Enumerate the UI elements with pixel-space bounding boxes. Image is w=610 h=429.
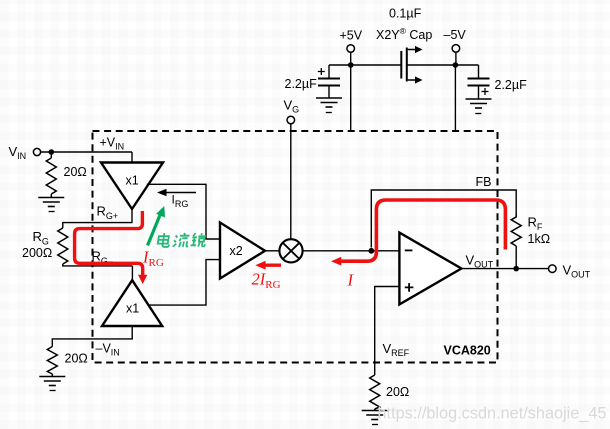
buffer U2 x1 bottom	[102, 280, 162, 326]
wire VG down to multiplier	[290, 124, 292, 239]
wire -5V down to box	[454, 65, 456, 131]
svg-text:x1: x1	[126, 174, 139, 188]
label current mirror (Chinese)	[157, 233, 207, 247]
svg-text:I: I	[347, 271, 355, 290]
svg-text:+5V: +5V	[340, 29, 363, 43]
wire FB top	[371, 190, 516, 248]
multiplier U4	[279, 239, 302, 262]
resistor R2 20ohm bottom left	[47, 347, 57, 377]
svg-text:0.1µF: 0.1µF	[389, 7, 422, 21]
annotation green current mirror arrow	[148, 206, 166, 246]
wire RG+ jog	[63, 223, 133, 228]
annotation red current path I along FB	[341, 200, 506, 261]
svg-text:VIN: VIN	[9, 144, 27, 161]
svg-text:x2: x2	[230, 244, 243, 258]
wire to buffer A2 apex	[131, 266, 133, 280]
wire +5V down to box	[350, 65, 352, 131]
wire buffer A2 output to x2 lower input	[149, 260, 220, 306]
node +5V rail junction	[348, 62, 354, 68]
svg-text:VG: VG	[284, 98, 300, 115]
annotation red current path through RG	[75, 211, 143, 276]
annotation arrow IRG black	[157, 189, 196, 197]
node I junction	[368, 248, 374, 254]
wire -5V to rail	[455, 52, 457, 65]
resistor R3 20ohm VREF	[370, 375, 380, 409]
ground input	[38, 198, 64, 212]
svg-text:–VIN: –VIN	[96, 342, 120, 358]
wire opamp output	[461, 268, 548, 270]
svg-text:2.2µF: 2.2µF	[495, 78, 528, 92]
svg-text:2.2µF: 2.2µF	[285, 77, 318, 91]
annotation arrow 2IRG red	[265, 264, 282, 267]
terminal VOUT	[549, 263, 591, 280]
svg-text:FB: FB	[476, 175, 492, 189]
wire +5V to rail	[350, 52, 352, 65]
svg-text:20Ω: 20Ω	[64, 165, 87, 179]
resistor RG 200ohm	[58, 228, 68, 264]
svg-text:2IRG: 2IRG	[252, 270, 281, 292]
svg-text:https://blog.csdn.net/shaojie_: https://blog.csdn.net/shaojie_45	[378, 405, 607, 423]
wire top rail right	[407, 64, 479, 66]
wire top rail left	[329, 64, 401, 66]
svg-text:20Ω: 20Ω	[386, 385, 409, 399]
ground VREF	[362, 409, 388, 425]
wire x2 to multiplier	[265, 250, 280, 252]
svg-text:RG: RG	[33, 229, 49, 247]
svg-text:VOUT: VOUT	[563, 263, 591, 280]
annotation arrow IRG red head	[138, 275, 147, 284]
svg-text:VREF: VREF	[383, 341, 410, 358]
svg-text:VOUT: VOUT	[466, 253, 494, 270]
resistor R1 20ohm input	[46, 152, 56, 198]
wire buffer A1 output to x2 upper input	[147, 184, 220, 239]
svg-text:20Ω: 20Ω	[65, 352, 88, 366]
svg-text:IRG: IRG	[172, 193, 189, 210]
wire RG- jog	[63, 264, 133, 266]
ground right cap	[466, 99, 492, 114]
svg-text:RF: RF	[528, 215, 543, 233]
svg-text:X2Y® Cap: X2Y® Cap	[376, 26, 432, 42]
capacitor C2 2.2uF left	[318, 65, 340, 98]
svg-text:x1: x1	[126, 302, 139, 316]
svg-text:+VIN: +VIN	[100, 136, 125, 152]
terminal +5V	[340, 29, 363, 53]
terminal VG	[284, 98, 300, 124]
svg-text:1kΩ: 1kΩ	[528, 232, 551, 246]
op-amp U5 output	[399, 233, 461, 305]
ground left cap	[316, 98, 342, 113]
IC boundary VCA820 dashed box	[93, 131, 498, 363]
resistor RF 1kohm	[511, 214, 521, 246]
wire -VIN down	[52, 326, 132, 347]
node output junction	[513, 266, 519, 272]
wire to buffer A1	[131, 152, 133, 163]
terminal VIN	[9, 144, 41, 161]
amplifier U3 x2	[220, 223, 265, 279]
node VIN junction	[49, 149, 55, 155]
capacitor C3 2.2uF right	[468, 65, 490, 99]
capacitor C1 0.1uF X2Y	[401, 46, 422, 84]
ground bottom left	[39, 377, 65, 391]
wire feedback FB	[515, 246, 517, 269]
svg-text:RG+: RG+	[97, 204, 119, 222]
wire VREF to opamp plus	[375, 287, 400, 376]
svg-text:200Ω: 200Ω	[22, 246, 52, 260]
terminal -5V	[444, 28, 467, 52]
buffer U1 x1 top	[101, 163, 163, 210]
wire buffer A1 apex down	[131, 209, 133, 223]
svg-text:IRG: IRG	[142, 248, 164, 270]
node -5V rail junction	[453, 62, 459, 68]
annotation arrow I red head	[331, 257, 341, 266]
wire VIN input	[41, 151, 132, 153]
svg-text:–5V: –5V	[444, 28, 467, 42]
svg-text:VCA820: VCA820	[444, 344, 491, 358]
wire multiplier to opamp	[302, 250, 399, 252]
